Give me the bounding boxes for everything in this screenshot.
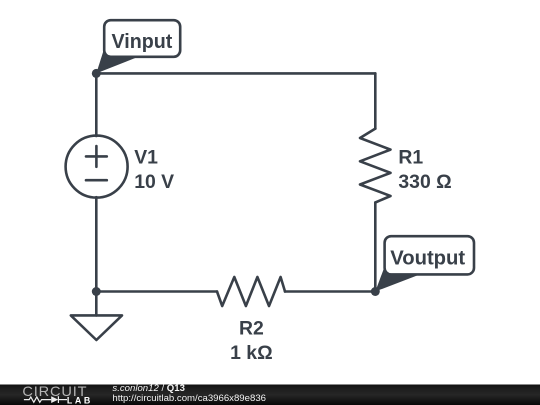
svg-text:http://circuitlab.com/ca3966x8: http://circuitlab.com/ca3966x89e836 [112, 393, 266, 404]
svg-text:Voutput: Voutput [390, 248, 465, 270]
svg-text:R1: R1 [398, 146, 423, 168]
voltage source V1 circle [66, 136, 128, 198]
svg-text:Vinput: Vinput [112, 31, 173, 53]
wire right lower [374, 203, 377, 292]
node Voutput callout box [385, 236, 474, 274]
wire left lower [95, 197, 98, 291]
junction node dot Voutput [371, 287, 380, 296]
ground stub wire [95, 292, 98, 316]
svg-text:LAB: LAB [67, 395, 91, 405]
wire right upper [374, 73, 377, 128]
resistor R1 zigzag [360, 129, 391, 203]
junction node dot at ground [92, 287, 101, 296]
svg-text:1 kΩ: 1 kΩ [230, 342, 273, 364]
wire bottom left [96, 290, 217, 293]
V1 plus sign [86, 146, 107, 167]
svg-text:R2: R2 [239, 317, 264, 339]
wire top horizontal [96, 72, 375, 75]
wire bottom right [285, 290, 375, 293]
resistor R2 zigzag [217, 277, 285, 306]
node Vinput callout box [104, 20, 180, 57]
svg-text:V1: V1 [134, 146, 158, 168]
ground triangle [71, 315, 122, 340]
node Vinput callout tail [96, 48, 139, 74]
CircuitLab logo mini schematic with resistor and diode [24, 396, 67, 403]
node Voutput callout tail [375, 266, 421, 292]
svg-text:330 Ω: 330 Ω [398, 171, 451, 193]
wire left upper [95, 73, 98, 136]
svg-text:10 V: 10 V [134, 171, 174, 193]
V1 minus sign [86, 179, 107, 182]
junction node dot Vinput [92, 69, 101, 78]
